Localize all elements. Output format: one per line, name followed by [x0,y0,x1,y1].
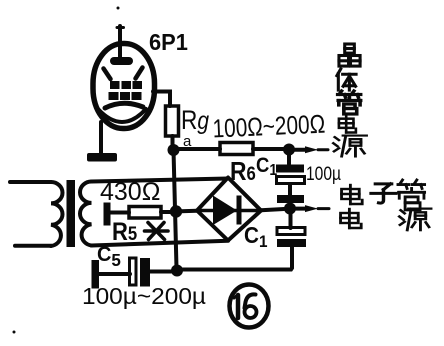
tube grid dashes row 2 [109,92,142,100]
capacitor C1 plate + (solid) [276,165,304,173]
wire bridge to node C [261,209,284,210]
resistor R5 [129,207,161,219]
transformer core [67,180,76,247]
Chinese labels drawn as strokes [333,44,431,230]
arrow to transistor supply [305,146,318,153]
asterisk mark [145,223,169,240]
capacitor C5 plate + (solid) [140,258,150,287]
svg-text:6P1: 6P1 [149,29,188,55]
svg-text:430Ω: 430Ω [100,178,160,206]
capacitor C5 left terminal bar [92,260,100,289]
bridge internal wire [200,209,258,213]
tube anode plate [110,57,133,65]
ground [87,153,117,162]
char guan3 (tube) column [338,91,361,114]
transformer secondary winding [80,182,92,246]
char ti3 (body) column [337,69,356,90]
node C junction [284,203,296,215]
svg-text:100µ~200µ: 100µ~200µ [82,283,206,309]
char yuan2 (source) column [333,136,366,157]
tube screen mark right [136,68,143,79]
bridge diode triangle [213,196,237,226]
tube grid dashes row 1 [110,81,142,89]
svg-text:100µ: 100µ [306,163,341,185]
wire C1 lower to bottom bus [183,247,292,270]
arrow to tube supply [305,205,318,212]
tube bottom inner arc [98,109,146,122]
transformer primary bottom lead [15,244,51,248]
digit 1 of 16 [236,295,241,318]
char dian4 (electric) row1 [342,185,363,204]
label C1 top [256,154,277,179]
R5 branch contact bar [104,203,111,226]
char jing1 (crystal) column [339,44,360,66]
wire tube cathode to ground [99,122,103,153]
figure number 16 circle [230,285,269,328]
tube cathode arc [105,103,143,108]
resistor Rg [166,106,179,136]
wire R6 to node B [253,147,287,151]
char guan3 (tube) row1 [398,180,425,210]
node a junction [168,144,180,156]
speck bottom left [13,331,16,334]
wire secondary bottom to bridge bottom vertex [92,241,229,246]
wire C5 terminal to plates [99,272,130,276]
char dian4 (electric) column [339,115,356,132]
svg-text:C5: C5 [97,243,121,271]
tube screen mark left [104,69,111,80]
label Rg [181,105,209,135]
label C1 bottom [244,222,267,251]
wire node B to arrow [294,148,305,152]
wire node a to R6 [179,147,220,151]
wire node E to bridge left vertex [181,209,197,214]
node E junction [170,205,182,217]
wire C1 down [288,184,292,196]
wire vertical bus node a to bottom [174,150,177,268]
char zi3 (child) row1 [371,184,396,203]
transformer primary top lead [10,180,51,184]
wire node C to arrow [296,207,305,211]
wire R5 to node E [161,210,172,214]
label 6P1 [149,29,188,55]
svg-text:R5: R5 [112,218,137,246]
wire tube anode to Rg [153,92,170,107]
svg-text:C1: C1 [244,222,267,251]
label 100ohm-200ohm [212,109,326,143]
node B junction [283,144,295,156]
label 100u [306,163,341,185]
wire C5 to node D [150,270,171,274]
resistor R6 [220,143,253,155]
capacitor C1 lower plate + (solid) [277,239,306,247]
capacitor C1 lower plate - (outline) [277,228,305,235]
char dian4 (electric) row2 [341,209,362,228]
svg-text:C1: C1 [256,154,277,179]
bridge rectifier diamond [197,178,261,241]
wire node C to C1 lower [289,213,293,228]
wire Rg to node a [171,136,175,148]
wire secondary top to bridge top vertex [92,179,229,182]
wire node B to C1 [287,150,291,164]
bridge diode cathode bar [237,196,242,225]
capacitor bar above node C [277,195,304,203]
label R5 [112,218,137,246]
transformer primary winding [51,182,63,246]
capacitor C5 plate - (outline) [130,258,137,285]
tube V 6P1 envelope [93,44,155,129]
speck top [117,7,120,10]
node D junction [171,265,183,277]
svg-text:Rg: Rg [181,105,209,135]
char yuan2 (source) row2 [399,209,431,231]
svg-text:100Ω~200Ω: 100Ω~200Ω [212,109,326,143]
digit 6 of 16 [245,294,256,308]
tube top lead wire [118,26,122,60]
label C5 [97,243,121,271]
capacitor C1 plate - (outline) [277,177,305,184]
label R6 [230,158,256,187]
wire bar to R5 [111,211,130,215]
